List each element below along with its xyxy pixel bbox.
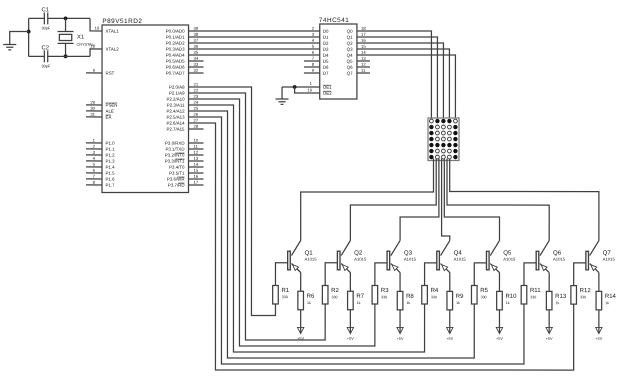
wire Q4 base to R4 bbox=[425, 263, 437, 286]
pin P3.3/INT1 (13) bbox=[189, 160, 204, 162]
svg-text:D7: D7 bbox=[323, 71, 329, 76]
crystal X1 body bbox=[59, 34, 71, 40]
pin P1.7 (8) bbox=[86, 184, 102, 186]
svg-text:XTAL1: XTAL1 bbox=[106, 29, 120, 34]
transistor Q5 collector lead bbox=[490, 241, 499, 256]
wire X1 bottom bbox=[65, 43, 67, 56]
wire matrix row 7 to Q7 collector bbox=[450, 159, 599, 241]
resistor R4 body bbox=[422, 286, 428, 305]
wire XTAL1 drop bbox=[90, 18, 102, 31]
wire Q0 to matrix column 1 bbox=[357, 31, 432, 121]
transistor Q3 emitter arrow bbox=[392, 265, 398, 271]
svg-text:32: 32 bbox=[194, 68, 199, 73]
resistor R9 body bbox=[447, 291, 453, 310]
capacitor C2 plates bbox=[43, 50, 45, 62]
svg-text:D1: D1 bbox=[323, 35, 329, 40]
svg-text:+5V: +5V bbox=[397, 337, 404, 341]
ground symbol 541 bbox=[276, 98, 289, 100]
LED matrix LM1 body bbox=[428, 118, 459, 161]
wire Q1 to matrix column 2 bbox=[357, 37, 438, 121]
svg-text:37: 37 bbox=[194, 38, 199, 43]
transistor Q5 emitter arrow bbox=[491, 265, 497, 271]
node junction C1/X1 bbox=[64, 17, 68, 21]
transistor Q2 emitter arrow bbox=[342, 265, 348, 271]
svg-text:14: 14 bbox=[361, 50, 366, 55]
wire R8 to power arrow bbox=[399, 310, 401, 333]
svg-text:P3.5/T1: P3.5/T1 bbox=[169, 171, 185, 176]
svg-text:Q4: Q4 bbox=[347, 53, 353, 58]
svg-text:R11: R11 bbox=[530, 288, 541, 294]
svg-text:A1015: A1015 bbox=[354, 257, 367, 262]
svg-text:P1.7: P1.7 bbox=[106, 183, 116, 188]
svg-text:A1015: A1015 bbox=[454, 257, 467, 262]
resistor R10 body bbox=[497, 291, 503, 310]
svg-text:ALE: ALE bbox=[106, 109, 114, 114]
transistor Q5 base bar bbox=[486, 251, 489, 270]
wire R14 to power arrow bbox=[598, 310, 600, 333]
wire Q2 base to R2 bbox=[325, 263, 337, 286]
svg-text:19: 19 bbox=[95, 26, 100, 31]
svg-text:R9: R9 bbox=[456, 294, 464, 300]
svg-text:R5: R5 bbox=[480, 288, 488, 294]
transistor Q1 base bar bbox=[288, 251, 291, 270]
svg-text:24: 24 bbox=[194, 100, 199, 105]
transistor Q6 base bar bbox=[536, 251, 539, 270]
pin P3.4/T0 (14) bbox=[189, 166, 204, 168]
wire R7 to power arrow bbox=[349, 310, 351, 333]
pin Q7 (11) bbox=[357, 72, 370, 74]
power terminal +5V stage 4 bbox=[447, 327, 453, 333]
svg-text:1k: 1k bbox=[406, 301, 410, 305]
svg-text:13: 13 bbox=[361, 56, 366, 61]
resistor R8 body bbox=[397, 291, 403, 310]
pin P1.5 (6) bbox=[86, 172, 102, 174]
pin P1.6 (7) bbox=[86, 178, 102, 180]
wire left bus vertical bbox=[28, 18, 30, 56]
svg-text:Q6: Q6 bbox=[553, 250, 562, 257]
svg-text:+5V: +5V bbox=[496, 337, 503, 341]
transistor Q6 collector lead bbox=[540, 241, 549, 256]
wire P2.6 to base resistor of Q7 bbox=[188, 123, 573, 370]
svg-text:R7: R7 bbox=[356, 294, 364, 300]
wire Q7 emitter to R14 bbox=[598, 273, 600, 292]
svg-text:P2.3/A11: P2.3/A11 bbox=[167, 103, 185, 108]
wire Q2 emitter to R7 bbox=[349, 273, 351, 292]
wire OE1 to ground bbox=[282, 86, 320, 88]
svg-text:1k: 1k bbox=[555, 301, 559, 305]
svg-text:330: 330 bbox=[580, 295, 586, 299]
transistor Q1 emitter lead bbox=[291, 263, 300, 272]
svg-text:P1.3: P1.3 bbox=[106, 159, 116, 164]
svg-text:11: 11 bbox=[361, 68, 366, 73]
wire Q7 base to R12 bbox=[574, 263, 586, 286]
svg-text:P1.1: P1.1 bbox=[106, 147, 116, 152]
wire Q5 base to R5 bbox=[474, 263, 486, 286]
svg-text:P3.7/RD: P3.7/RD bbox=[168, 183, 185, 188]
wire matrix row 3 to Q3 collector bbox=[400, 159, 439, 241]
wire Q1 base to R1 bbox=[275, 263, 287, 286]
svg-text:D2: D2 bbox=[323, 41, 329, 46]
svg-text:R3: R3 bbox=[381, 288, 389, 294]
wire gnd-bus to C1 bbox=[29, 17, 45, 19]
svg-text:P2.1/A9: P2.1/A9 bbox=[169, 91, 185, 96]
svg-text:1k: 1k bbox=[605, 301, 609, 305]
svg-text:Q0: Q0 bbox=[347, 29, 353, 34]
wire OE2 to junction bbox=[295, 87, 320, 93]
node junction gnd tee bbox=[27, 30, 31, 34]
resistor R11 body bbox=[521, 286, 527, 305]
svg-text:R2: R2 bbox=[331, 288, 339, 294]
wire P0.2 to D2 bbox=[189, 42, 320, 44]
svg-text:330: 330 bbox=[331, 295, 337, 299]
svg-text:P3.0/RXD: P3.0/RXD bbox=[165, 141, 185, 146]
svg-text:P3.3/INT1: P3.3/INT1 bbox=[165, 159, 185, 164]
svg-text:18: 18 bbox=[361, 26, 366, 31]
svg-text:Q5: Q5 bbox=[503, 250, 512, 257]
svg-text:R10: R10 bbox=[505, 294, 517, 300]
svg-text:P0.2/AD2: P0.2/AD2 bbox=[166, 41, 185, 46]
pin D7 (9) bbox=[304, 72, 320, 74]
pin P1.4 (5) bbox=[86, 166, 102, 168]
svg-text:1k: 1k bbox=[506, 301, 510, 305]
wire P2.5 to base resistor of Q6 bbox=[188, 117, 524, 364]
pin P1.2 (3) bbox=[86, 154, 102, 156]
svg-text:P0.0/AD0: P0.0/AD0 bbox=[166, 29, 185, 34]
pin P0.5/AD5 (34) bbox=[189, 60, 204, 62]
power terminal +5V stage 2 bbox=[347, 327, 353, 333]
wire X1 top bbox=[65, 18, 67, 31]
svg-text:29: 29 bbox=[90, 100, 95, 105]
LED matrix dots (letter A pattern) bbox=[430, 119, 434, 123]
transistor Q7 base bar bbox=[586, 251, 589, 270]
svg-text:21: 21 bbox=[194, 82, 199, 87]
svg-text:Q7: Q7 bbox=[603, 250, 612, 257]
wire P2.2 to base resistor of Q3 bbox=[188, 99, 374, 346]
svg-text:EA: EA bbox=[106, 115, 112, 120]
svg-text:P2.4/A12: P2.4/A12 bbox=[166, 109, 185, 114]
svg-text:P2.0/A8: P2.0/A8 bbox=[169, 85, 185, 90]
svg-text:30pF: 30pF bbox=[42, 26, 51, 30]
transistor Q3 collector lead bbox=[391, 241, 400, 256]
wire P0.0 to D0 bbox=[189, 30, 320, 32]
wire R10 to power arrow bbox=[498, 310, 500, 333]
wire ground drop 541 bbox=[281, 87, 283, 99]
svg-text:1k: 1k bbox=[456, 301, 460, 305]
svg-text:P0.7/AD7: P0.7/AD7 bbox=[166, 71, 185, 76]
wire C2 to XTAL2 corner bbox=[48, 55, 90, 57]
transistor Q7 emitter arrow bbox=[591, 265, 597, 271]
transistor Q1 collector lead bbox=[291, 240, 300, 255]
crystal X1 bottom plate bbox=[58, 42, 74, 44]
svg-text:Q1: Q1 bbox=[347, 35, 353, 40]
svg-text:Q3: Q3 bbox=[347, 47, 353, 52]
svg-text:D0: D0 bbox=[323, 29, 329, 34]
svg-text:+5V: +5V bbox=[446, 337, 453, 341]
wire Q3 emitter to R8 bbox=[399, 273, 401, 292]
transistor Q3 emitter lead bbox=[391, 264, 400, 273]
svg-text:A1015: A1015 bbox=[304, 257, 317, 262]
svg-text:R12: R12 bbox=[580, 288, 592, 294]
wire P2.3 to base resistor of Q4 bbox=[188, 105, 424, 352]
power terminal +5V stage 6 bbox=[546, 327, 552, 333]
wire P2.4 to base resistor of Q5 bbox=[188, 111, 474, 358]
pin P3.2/INT0 (12) bbox=[189, 154, 204, 156]
resistor R5 body bbox=[471, 286, 477, 305]
transistor Q4 collector lead bbox=[441, 241, 450, 256]
svg-text:A1015: A1015 bbox=[503, 257, 516, 262]
wire P0.4 to D4 bbox=[189, 54, 320, 56]
resistor R14 body bbox=[596, 291, 602, 310]
svg-text:P3.2/INT0: P3.2/INT0 bbox=[165, 153, 185, 158]
wire Q6 base to R11 bbox=[524, 263, 536, 286]
svg-text:D3: D3 bbox=[323, 47, 329, 52]
svg-text:1k: 1k bbox=[357, 301, 361, 305]
wire Q1 emitter to R6 bbox=[300, 272, 302, 291]
svg-text:39: 39 bbox=[194, 26, 199, 31]
svg-text:P0.6/AD6: P0.6/AD6 bbox=[166, 65, 185, 70]
svg-text:PSEN: PSEN bbox=[106, 103, 118, 108]
svg-text:+5V: +5V bbox=[347, 337, 354, 341]
svg-text:P3.6/WR: P3.6/WR bbox=[167, 177, 185, 182]
svg-text:OE2: OE2 bbox=[323, 91, 332, 96]
pin P1.3 (4) bbox=[86, 160, 102, 162]
svg-text:+5V: +5V bbox=[546, 337, 553, 341]
svg-text:R8: R8 bbox=[406, 294, 414, 300]
svg-text:P2.5/A13: P2.5/A13 bbox=[166, 115, 185, 120]
pin D6 (8) bbox=[304, 66, 320, 68]
resistor R3 body bbox=[372, 286, 378, 305]
svg-text:30: 30 bbox=[90, 106, 95, 111]
svg-text:D6: D6 bbox=[323, 65, 329, 70]
svg-text:D5: D5 bbox=[323, 59, 329, 64]
svg-text:25: 25 bbox=[194, 106, 199, 111]
svg-text:RST: RST bbox=[106, 71, 115, 76]
transistor Q7 emitter lead bbox=[590, 264, 599, 273]
svg-text:15: 15 bbox=[194, 168, 199, 173]
svg-text:+5V: +5V bbox=[595, 337, 602, 341]
transistor Q7 collector lead bbox=[590, 241, 599, 256]
power terminal +5V stage 7 bbox=[596, 327, 602, 333]
pin ALE (30) bbox=[86, 110, 102, 112]
transistor Q2 collector lead bbox=[341, 241, 350, 256]
wire Q3 to matrix column 4 bbox=[357, 49, 450, 121]
pin P1.1 (2) bbox=[86, 148, 102, 150]
pin RST (9) bbox=[86, 72, 102, 74]
pin Q6 (12) bbox=[357, 66, 370, 68]
pin P3.5/T1 (15) bbox=[189, 172, 204, 174]
pin P0.7/AD7 (32) bbox=[189, 72, 204, 74]
svg-text:11: 11 bbox=[194, 144, 199, 149]
svg-text:14: 14 bbox=[194, 162, 199, 167]
svg-text:22: 22 bbox=[194, 88, 199, 93]
svg-text:P0.5/AD5: P0.5/AD5 bbox=[166, 59, 185, 64]
svg-text:10: 10 bbox=[194, 138, 199, 143]
svg-text:30pF: 30pF bbox=[42, 64, 51, 68]
svg-text:P0.3/AD3: P0.3/AD3 bbox=[166, 47, 185, 52]
wire matrix row 2 to Q2 collector bbox=[350, 159, 436, 241]
svg-text:P2.6/A14: P2.6/A14 bbox=[166, 121, 185, 126]
transistor Q2 emitter lead bbox=[341, 264, 350, 273]
svg-text:A1015: A1015 bbox=[404, 257, 417, 262]
svg-text:12: 12 bbox=[361, 62, 366, 67]
pin P3.7/RD (17) bbox=[189, 184, 204, 186]
wire matrix row 1 to Q1 collector bbox=[301, 158, 434, 240]
wire Q3 base to R3 bbox=[375, 263, 387, 286]
transistor Q3 base bar bbox=[387, 251, 390, 270]
node junction X1/C2 bbox=[64, 54, 68, 58]
svg-text:P0.1/AD1: P0.1/AD1 bbox=[166, 35, 185, 40]
resistor R7 body bbox=[348, 291, 354, 310]
pin P2.7/A15 (28) bbox=[189, 128, 204, 130]
svg-text:1k: 1k bbox=[307, 301, 311, 305]
wire P2.1 to base resistor of Q2 bbox=[188, 93, 325, 340]
svg-text:16: 16 bbox=[194, 174, 199, 179]
transistor Q2 base bar bbox=[337, 251, 340, 270]
svg-text:R13: R13 bbox=[555, 294, 567, 300]
svg-text:Q5: Q5 bbox=[347, 59, 353, 64]
pin Q5 (13) bbox=[357, 60, 370, 62]
power terminal +5V stage 3 bbox=[397, 327, 403, 333]
svg-text:A1015: A1015 bbox=[553, 257, 566, 262]
svg-text:P1.0: P1.0 bbox=[106, 141, 116, 146]
wire Q4 emitter to R9 bbox=[449, 273, 451, 292]
power terminal +5V stage 1 bbox=[297, 327, 303, 333]
wire Q5 emitter to R10 bbox=[498, 273, 500, 292]
svg-text:27: 27 bbox=[194, 118, 199, 123]
svg-text:35: 35 bbox=[194, 50, 199, 55]
wire matrix row 4 to Q4 collector bbox=[442, 159, 450, 241]
svg-text:17: 17 bbox=[361, 32, 366, 37]
wire matrix row 5 to Q5 collector bbox=[444, 159, 499, 241]
svg-text:31: 31 bbox=[90, 112, 95, 117]
svg-text:28: 28 bbox=[194, 124, 199, 129]
svg-text:Q4: Q4 bbox=[454, 250, 463, 257]
svg-text:330: 330 bbox=[381, 295, 387, 299]
IC U2 74HC541 body bbox=[320, 24, 357, 99]
svg-text:P0.4/AD4: P0.4/AD4 bbox=[166, 53, 185, 58]
IC U1 P89V51RD2 body bbox=[102, 25, 189, 193]
wire P0.3 to D3 bbox=[189, 48, 320, 50]
pin P3.0/RXD (10) bbox=[189, 142, 204, 144]
wire C1 to XTAL1 corner bbox=[48, 17, 90, 19]
pin P3.1/TXD (11) bbox=[189, 148, 204, 150]
svg-text:12: 12 bbox=[194, 150, 199, 155]
wire Q4 to matrix column 5 bbox=[357, 55, 456, 121]
resistor R13 body bbox=[546, 291, 552, 310]
wire R6 to power arrow bbox=[300, 310, 302, 333]
svg-text:16: 16 bbox=[361, 38, 366, 43]
wire gnd branch bbox=[10, 32, 29, 45]
svg-text:17: 17 bbox=[194, 180, 199, 185]
svg-text:R1: R1 bbox=[281, 288, 289, 294]
svg-text:XTAL2: XTAL2 bbox=[106, 47, 120, 52]
svg-text:P3.1/TXD: P3.1/TXD bbox=[165, 147, 184, 152]
transistor Q4 emitter arrow bbox=[442, 265, 448, 271]
power terminal +5V stage 5 bbox=[496, 327, 502, 333]
capacitor C1 plates bbox=[43, 13, 45, 25]
ground symbol left bbox=[3, 44, 16, 46]
pin P3.6/WR (16) bbox=[189, 178, 204, 180]
wire P0.1 to D1 bbox=[189, 36, 320, 38]
svg-text:Q2: Q2 bbox=[354, 250, 363, 257]
wire R13 to power arrow bbox=[548, 310, 550, 333]
transistor Q5 emitter lead bbox=[490, 264, 499, 273]
svg-text:P1.2: P1.2 bbox=[106, 153, 116, 158]
svg-text:D4: D4 bbox=[323, 53, 329, 58]
svg-text:Q7: Q7 bbox=[347, 71, 353, 76]
svg-text:38: 38 bbox=[194, 32, 199, 37]
svg-text:P89V51RD2: P89V51RD2 bbox=[102, 18, 142, 25]
wire Q2 to matrix column 3 bbox=[357, 43, 444, 121]
pin EA (31) bbox=[86, 116, 102, 118]
svg-text:15: 15 bbox=[361, 44, 366, 49]
wire XTAL2 rise bbox=[90, 49, 102, 56]
transistor Q4 emitter lead bbox=[441, 264, 450, 273]
svg-text:Q1: Q1 bbox=[304, 250, 313, 257]
svg-text:330: 330 bbox=[530, 295, 536, 299]
svg-text:A1015: A1015 bbox=[603, 257, 616, 262]
svg-text:19: 19 bbox=[307, 87, 312, 92]
resistor R2 body bbox=[322, 286, 328, 305]
transistor Q6 emitter arrow bbox=[541, 265, 547, 271]
svg-text:Q2: Q2 bbox=[347, 41, 353, 46]
svg-text:74HC541: 74HC541 bbox=[319, 17, 350, 24]
svg-text:Q6: Q6 bbox=[347, 65, 353, 70]
pin P0.6/AD6 (33) bbox=[189, 66, 204, 68]
svg-text:23: 23 bbox=[194, 94, 199, 99]
crystal X1 top plate bbox=[58, 31, 74, 33]
svg-text:26: 26 bbox=[194, 112, 199, 117]
svg-text:330: 330 bbox=[431, 295, 437, 299]
wire Q6 emitter to R13 bbox=[548, 273, 550, 292]
svg-text:330: 330 bbox=[282, 295, 288, 299]
transistor Q4 base bar bbox=[437, 251, 440, 270]
svg-text:P1.5: P1.5 bbox=[106, 171, 116, 176]
pin PSEN (29) bbox=[86, 104, 102, 106]
svg-text:X1: X1 bbox=[77, 35, 84, 41]
node junction OE1/OE2 bbox=[293, 85, 297, 89]
svg-text:R6: R6 bbox=[307, 294, 315, 300]
svg-text:13: 13 bbox=[194, 156, 199, 161]
wire P2.0 to base resistor of Q1 bbox=[188, 87, 275, 316]
svg-text:Q3: Q3 bbox=[404, 250, 413, 257]
svg-text:P2.7/A15: P2.7/A15 bbox=[166, 127, 185, 132]
svg-text:P1.6: P1.6 bbox=[106, 177, 116, 182]
resistor R1 body bbox=[273, 285, 279, 304]
svg-text:R14: R14 bbox=[605, 294, 617, 300]
svg-text:36: 36 bbox=[194, 44, 199, 49]
svg-text:P2.2/A10: P2.2/A10 bbox=[166, 97, 185, 102]
svg-text:33: 33 bbox=[194, 62, 199, 67]
svg-text:P1.4: P1.4 bbox=[106, 165, 116, 170]
svg-text:R4: R4 bbox=[431, 288, 439, 294]
transistor Q6 emitter lead bbox=[540, 264, 549, 273]
transistor Q1 emitter arrow bbox=[293, 265, 299, 271]
svg-text:P3.4/T0: P3.4/T0 bbox=[169, 165, 185, 170]
svg-text:OE1: OE1 bbox=[323, 85, 332, 90]
wire R9 to power arrow bbox=[449, 310, 451, 333]
pin D5 (7) bbox=[304, 60, 320, 62]
resistor R6 body bbox=[298, 291, 304, 310]
svg-text:CRYSTAL: CRYSTAL bbox=[77, 43, 94, 47]
pin P1.0 (1) bbox=[86, 142, 102, 144]
wire matrix row 6 to Q6 collector bbox=[447, 159, 549, 241]
svg-text:34: 34 bbox=[194, 56, 199, 61]
resistor R12 body bbox=[571, 286, 577, 305]
svg-text:330: 330 bbox=[481, 295, 487, 299]
wire gnd-bus to C2 bbox=[29, 55, 45, 57]
